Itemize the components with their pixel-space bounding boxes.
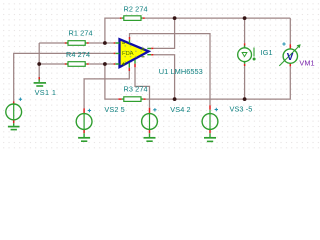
svg-text:R3 274: R3 274 bbox=[124, 85, 148, 94]
ground below VS3 bbox=[204, 133, 216, 141]
ground below VS1 bbox=[8, 123, 20, 129]
op-amp U1 FDA triangle bbox=[114, 37, 154, 71]
junction node A dot bbox=[103, 41, 107, 45]
junction top rail out+ dot bbox=[173, 16, 177, 20]
junction bottom rail IG1 dot bbox=[243, 97, 247, 101]
resistor R3 bbox=[118, 97, 145, 102]
svg-text:V: V bbox=[287, 52, 294, 63]
wire R4 left bbox=[39, 63, 65, 65]
voltage source VS3 bbox=[202, 105, 218, 133]
svg-text:U1 LMH6553: U1 LMH6553 bbox=[159, 67, 203, 76]
wire VM1 top stem bbox=[289, 18, 291, 44]
ground below VS4 bbox=[144, 133, 156, 141]
grid dots backdrop bbox=[0, 0, 320, 150]
pin mark ground rail bbox=[38, 77, 40, 79]
FDA pins bbox=[115, 43, 119, 64]
voltage source VS2 bbox=[76, 108, 92, 133]
wire node B down to R3 left bbox=[105, 64, 118, 99]
wire top rail R2 right to VM1 bbox=[145, 17, 290, 19]
wire FDA top pin to VS3 bbox=[130, 34, 211, 106]
wire R1 left bbox=[39, 42, 65, 44]
junction ground rail dot bbox=[37, 62, 41, 66]
wire out- down to bottom rail bbox=[153, 55, 174, 99]
svg-text:R4 274: R4 274 bbox=[66, 50, 90, 59]
current source IG1 bbox=[238, 43, 256, 66]
wire IG1 top stem bbox=[244, 18, 246, 43]
wire out+ up to top rail bbox=[153, 18, 174, 48]
wire FDA bottom-left pin to VS2 bbox=[84, 71, 129, 108]
svg-text:VS3 -5: VS3 -5 bbox=[230, 105, 253, 114]
svg-text:VS1 1: VS1 1 bbox=[35, 88, 57, 97]
ground below VS2 bbox=[78, 133, 90, 141]
wire FDA bottom-right pin to VS4 bbox=[135, 67, 150, 108]
svg-text:VM1: VM1 bbox=[299, 59, 314, 68]
voltage source VS1 bbox=[6, 98, 22, 124]
junction top rail IG1 dot bbox=[243, 16, 247, 20]
wire VS1 to VOCM pin bbox=[14, 53, 114, 101]
voltmeter VM1 bbox=[279, 42, 300, 66]
svg-text:IG1: IG1 bbox=[261, 48, 273, 57]
wire R4 right to node B bbox=[89, 63, 114, 65]
wire bottom rail R3 right to VM1 bottom bbox=[146, 66, 291, 99]
ground at input divider bbox=[34, 77, 46, 86]
svg-text:R1 274: R1 274 bbox=[69, 29, 93, 38]
svg-text:FDA: FDA bbox=[122, 51, 134, 57]
voltage source VS4 bbox=[142, 108, 158, 134]
svg-text:VS2 5: VS2 5 bbox=[104, 105, 124, 114]
resistor R1 bbox=[65, 41, 89, 46]
junction bottom rail out- dot bbox=[173, 97, 177, 101]
wire ground rail left vertical bbox=[38, 43, 40, 78]
svg-text:R2 274: R2 274 bbox=[124, 4, 148, 13]
resistor R4 bbox=[65, 62, 89, 67]
wire R1 right to node A bbox=[89, 42, 114, 44]
resistor R2 bbox=[120, 16, 145, 21]
junction node B dot bbox=[103, 62, 107, 66]
wire IG1 bottom stem bbox=[244, 66, 246, 99]
wire R2 left drop to node A bbox=[105, 18, 120, 43]
svg-text:VS4 2: VS4 2 bbox=[170, 105, 190, 114]
